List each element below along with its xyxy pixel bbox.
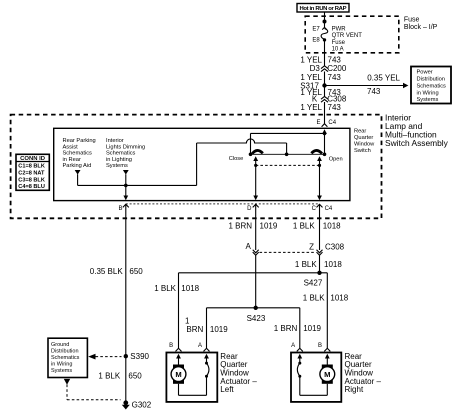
- connector C308 pin Z: [309, 242, 345, 255]
- svg-text:Z: Z: [309, 242, 314, 251]
- svg-text:E8: E8: [312, 37, 320, 43]
- left actuator pin B: [169, 343, 181, 351]
- svg-text:1018: 1018: [181, 284, 199, 293]
- wire: drop to close pivot: [250, 133, 252, 154]
- svg-text:S390: S390: [130, 352, 149, 361]
- right actuator pin A: [291, 343, 303, 351]
- wire: riser to switch common: [196, 143, 198, 185]
- power distribution schematics box: [411, 67, 451, 104]
- svg-text:Block – I/P: Block – I/P: [404, 24, 438, 31]
- svg-text:G302: G302: [132, 401, 152, 410]
- ground distribution reference arrow: [88, 354, 121, 360]
- svg-text:A: A: [198, 343, 202, 349]
- wire 1 YEL 743 S317 to C308: [300, 86, 341, 98]
- CONN ID table: [16, 154, 49, 190]
- svg-text:Schematics: Schematics: [417, 83, 447, 89]
- svg-text:C: C: [312, 206, 317, 212]
- svg-text:C308: C308: [325, 243, 345, 252]
- svg-text:in Wiring: in Wiring: [51, 362, 72, 368]
- svg-text:Hot in RUN or RAP: Hot in RUN or RAP: [300, 6, 347, 12]
- svg-text:B: B: [118, 206, 122, 212]
- fuse block dashed box: [305, 16, 399, 53]
- fuse PWR QTR VENT 10A: [321, 27, 362, 53]
- svg-text:Parking Aid: Parking Aid: [63, 163, 92, 169]
- wire 1 BLK 650 S390 to G302: [98, 371, 142, 380]
- wire: switch feed top rail: [251, 132, 325, 134]
- interior lamp and multi-function switch assembly dashed box: [11, 115, 382, 219]
- svg-text:PWR: PWR: [332, 27, 347, 33]
- svg-text:E7: E7: [312, 27, 320, 33]
- splice S390: [124, 352, 150, 361]
- svg-text:Rear: Rear: [354, 129, 366, 135]
- splice S423: [247, 306, 266, 323]
- svg-text:Window: Window: [354, 142, 375, 148]
- open contact to pin C: [317, 156, 322, 200]
- wire 1 YEL 743 C308 to switch assembly pin E: [300, 102, 341, 124]
- svg-text:10 A: 10 A: [332, 47, 344, 53]
- splice S317: [300, 81, 326, 90]
- wire: pin E entering switch: [322, 129, 327, 154]
- wire 1 BLK 1018 to right actuator B: [303, 273, 349, 348]
- ground distribution to G302 dashed reference: [64, 379, 121, 400]
- wire 1 BLK 1018 pin C to C308 Z: [293, 204, 341, 250]
- wire 1 BRN 1019 A to S423: [255, 255, 257, 308]
- wire 1 BLK 1018 Z to S427: [295, 255, 342, 273]
- svg-text:1018: 1018: [323, 222, 341, 231]
- svg-text:in Wiring: in Wiring: [417, 90, 439, 96]
- svg-text:1 BRN: 1 BRN: [274, 324, 298, 333]
- svg-text:Switch Assembly: Switch Assembly: [385, 138, 449, 148]
- svg-text:650: 650: [128, 371, 142, 380]
- wire: S423 branch rail: [207, 307, 300, 309]
- wire 1 BRN 1019 to left actuator A: [185, 308, 228, 348]
- svg-text:Systems: Systems: [417, 97, 439, 103]
- wire: hot feed from banner into fuse block: [324, 12, 326, 27]
- svg-text:Schematics: Schematics: [63, 151, 93, 157]
- right actuator A lead: [297, 354, 302, 363]
- ground distribution schematics box: [48, 338, 87, 377]
- svg-text:C1=8 BLK: C1=8 BLK: [18, 164, 45, 170]
- lights dimming tap arrow: [123, 170, 129, 185]
- svg-text:1019: 1019: [260, 222, 278, 231]
- svg-text:QTR VENT: QTR VENT: [332, 33, 363, 39]
- mechanical link dashed: [256, 164, 320, 166]
- svg-text:in Lighting: in Lighting: [106, 157, 132, 163]
- node: close pivot: [249, 153, 253, 157]
- svg-text:1019: 1019: [210, 325, 228, 334]
- node: B tap junction: [124, 184, 128, 188]
- svg-text:E: E: [316, 120, 320, 126]
- fuse block label: [404, 17, 438, 31]
- node: open plunger: [318, 164, 321, 167]
- svg-text:B: B: [169, 343, 173, 349]
- svg-text:Close: Close: [229, 156, 244, 162]
- svg-text:Fuse: Fuse: [332, 40, 346, 46]
- pin E8: [312, 37, 326, 43]
- right actuator label: [345, 352, 382, 394]
- left breaker CB1: [205, 362, 209, 378]
- svg-text:S423: S423: [247, 314, 266, 323]
- svg-text:1018: 1018: [324, 260, 342, 269]
- svg-text:C308: C308: [327, 94, 347, 103]
- wire 1 BLK 1018 to left actuator B: [154, 273, 199, 348]
- svg-text:1 BLK: 1 BLK: [303, 294, 325, 303]
- svg-text:1018: 1018: [330, 294, 348, 303]
- connector C4 pin E: [316, 120, 336, 127]
- svg-text:B: B: [318, 343, 322, 349]
- svg-text:C4: C4: [325, 206, 333, 212]
- svg-text:Lights Dimming: Lights Dimming: [106, 144, 145, 150]
- svg-text:Distribution: Distribution: [51, 349, 79, 355]
- connector C308 boundary dashed: [260, 251, 316, 253]
- right actuator B lead: [325, 354, 330, 365]
- connector C308 pin A: [245, 242, 258, 255]
- svg-text:743: 743: [328, 55, 342, 64]
- rear parking assist note: [63, 138, 96, 169]
- connector C4 boundary dotted line: [126, 203, 320, 205]
- svg-text:A: A: [245, 242, 251, 251]
- left actuator internal return wire: [179, 376, 207, 395]
- switch label: [354, 129, 375, 155]
- wire: S427 branch rail: [179, 272, 328, 274]
- svg-text:Ground: Ground: [51, 342, 69, 348]
- node: close plunger: [254, 164, 257, 167]
- right actuator internal return wire: [300, 376, 328, 395]
- wire 1 YEL 743 C200 to S317: [300, 72, 341, 86]
- svg-text:743: 743: [367, 87, 381, 96]
- svg-text:Rear Parking: Rear Parking: [63, 138, 96, 144]
- left actuator A lead: [204, 354, 209, 363]
- junction dot above fuse: [323, 20, 327, 24]
- wire 1 BRN 1019 pin D to C308 A: [228, 204, 277, 250]
- svg-text:D3: D3: [310, 64, 321, 73]
- svg-text:0.35 YEL: 0.35 YEL: [367, 74, 400, 83]
- svg-text:Systems: Systems: [106, 163, 128, 169]
- right actuator box: [291, 353, 341, 402]
- wire: crossover to center contact with hop: [197, 139, 287, 143]
- hot in RUN or RAP banner: [297, 4, 349, 13]
- svg-text:743: 743: [328, 73, 342, 82]
- ground G302: [122, 400, 152, 409]
- motor M2 right: [320, 365, 335, 384]
- wire 1 BRN 1019 to right actuator A: [274, 308, 322, 348]
- svg-text:C200: C200: [327, 64, 347, 73]
- svg-text:M: M: [324, 370, 330, 379]
- splice S427: [304, 271, 323, 288]
- rear quarter window switch box: [54, 128, 350, 200]
- svg-text:1 BRN: 1 BRN: [228, 222, 252, 231]
- svg-text:S427: S427: [304, 278, 323, 287]
- close contact to pin D: [253, 156, 258, 200]
- svg-text:1019: 1019: [303, 324, 321, 333]
- svg-text:Right: Right: [345, 385, 364, 394]
- svg-text:Power: Power: [417, 70, 433, 76]
- pin D: [247, 204, 259, 212]
- svg-text:1 YEL: 1 YEL: [300, 55, 322, 64]
- rear parking assist tap arrow: [75, 170, 81, 185]
- svg-text:Left: Left: [220, 385, 234, 394]
- svg-text:C3=8 BLK: C3=8 BLK: [18, 177, 45, 183]
- svg-text:1 BLK: 1 BLK: [293, 222, 315, 231]
- svg-text:C4: C4: [328, 120, 336, 126]
- left actuator box: [166, 353, 217, 402]
- wire: dimming bus: [78, 184, 197, 186]
- svg-text:743: 743: [328, 103, 342, 112]
- motor M1 left: [171, 365, 186, 384]
- left actuator pin A: [198, 343, 210, 351]
- svg-text:1 BLK: 1 BLK: [154, 284, 176, 293]
- pin B exit arrow: [123, 185, 128, 200]
- svg-text:M: M: [175, 370, 181, 379]
- switch contact baseline: [251, 153, 325, 155]
- svg-text:C2=8 NAT: C2=8 NAT: [18, 170, 45, 176]
- left actuator B lead: [176, 354, 181, 365]
- svg-text:D: D: [247, 206, 252, 212]
- connector C200 pin D3: [310, 64, 347, 73]
- svg-text:1 BLK: 1 BLK: [98, 371, 120, 380]
- svg-text:Fuse: Fuse: [404, 17, 420, 24]
- pin E7: [312, 27, 326, 33]
- svg-text:C4=8 BLU: C4=8 BLU: [18, 184, 45, 190]
- svg-text:650: 650: [129, 267, 143, 276]
- open wiper arc: [311, 150, 322, 153]
- svg-text:Switch: Switch: [354, 148, 371, 154]
- right actuator pin B: [318, 343, 330, 351]
- right breaker CB2: [297, 362, 301, 378]
- svg-text:0.35 BLK: 0.35 BLK: [90, 267, 124, 276]
- svg-text:K: K: [312, 94, 318, 103]
- close wiper arc: [252, 150, 263, 153]
- svg-text:A: A: [291, 343, 295, 349]
- wire 1 YEL 743 fuse to C200: [300, 40, 341, 66]
- svg-text:BRN: BRN: [186, 325, 203, 334]
- connector C308 pin K: [312, 94, 347, 103]
- svg-text:1 BLK: 1 BLK: [295, 260, 317, 269]
- svg-text:Schematics: Schematics: [106, 151, 136, 157]
- pin B: [118, 204, 128, 212]
- assembly label: [385, 112, 449, 148]
- wire 0.35 BLK 650 pin B to S390: [90, 204, 144, 402]
- svg-text:1 YEL: 1 YEL: [300, 103, 322, 112]
- svg-text:CONN ID: CONN ID: [20, 156, 45, 162]
- svg-text:Interior: Interior: [106, 138, 124, 144]
- wire: drop to center contact: [286, 143, 288, 154]
- svg-text:Distribution: Distribution: [417, 77, 445, 83]
- svg-text:Quarter: Quarter: [354, 135, 373, 141]
- node: center contact: [285, 153, 289, 157]
- svg-text:Open: Open: [329, 156, 343, 162]
- interior lights dimming note: [106, 138, 145, 169]
- pin C of C4: [312, 204, 333, 212]
- svg-text:Systems: Systems: [51, 368, 72, 374]
- wire 0.35 YEL 743 branch to power distribution: [325, 74, 409, 96]
- svg-text:in Rear: in Rear: [63, 157, 81, 163]
- node: open pivot: [323, 153, 327, 157]
- node: feed junction: [323, 132, 327, 136]
- left actuator label: [220, 352, 257, 394]
- svg-text:Schematics: Schematics: [51, 355, 80, 361]
- svg-text:Assist: Assist: [63, 144, 79, 150]
